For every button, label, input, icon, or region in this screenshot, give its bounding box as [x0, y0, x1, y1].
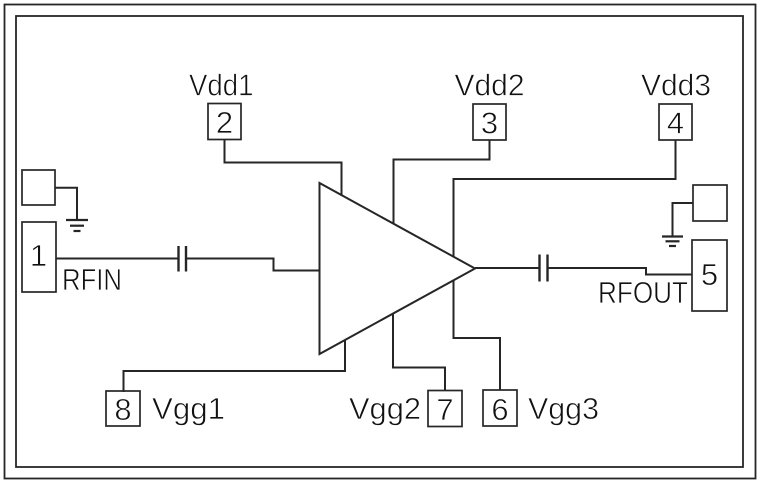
svg-text:RFIN: RFIN [62, 262, 122, 297]
svg-text:1: 1 [30, 238, 47, 273]
ground stub square (input) [22, 170, 55, 205]
wire square to ground (output side) [673, 203, 694, 236]
svg-text:5: 5 [701, 257, 718, 292]
svg-text:RFOUT: RFOUT [598, 275, 688, 310]
wire Vgg3 to amplifier [454, 281, 501, 391]
capacitor C1 (input DC block) [177, 246, 179, 272]
pin 7 box [428, 391, 462, 427]
ground (input side) [66, 220, 88, 231]
capacitor C2 (output DC block) [538, 255, 540, 282]
svg-text:3: 3 [481, 106, 498, 141]
pin 8 box [106, 391, 140, 426]
ground stub square (output) [693, 185, 727, 221]
svg-text:Vdd2: Vdd2 [455, 68, 525, 103]
wire Vdd2 to amplifier [394, 140, 490, 224]
svg-text:7: 7 [436, 392, 453, 427]
svg-text:6: 6 [491, 392, 508, 427]
op-amp U1 amplifier triangle [320, 183, 476, 354]
svg-text:Vdd1: Vdd1 [189, 68, 254, 103]
svg-text:4: 4 [667, 106, 684, 141]
svg-text:Vgg1: Vgg1 [152, 391, 225, 426]
wire Vgg1 to amplifier [124, 340, 346, 392]
pin 6 box [483, 390, 517, 426]
ground (output side) [662, 237, 683, 247]
wire amplifier output to C2 [475, 267, 539, 269]
wire pin1 to C1 [56, 258, 178, 260]
svg-text:Vgg2: Vgg2 [349, 391, 421, 426]
wire Vdd3 to amplifier [454, 140, 676, 258]
wire Vgg2 to amplifier [393, 314, 445, 391]
pin 2 box [208, 104, 241, 140]
wire C1 to amplifier input [186, 259, 320, 271]
pin 1 box [22, 222, 56, 292]
pin 3 box [473, 104, 506, 140]
wire square to ground [55, 188, 77, 220]
wire Vdd1 to amplifier [225, 140, 342, 197]
svg-text:Vgg3: Vgg3 [528, 391, 599, 426]
pin 4 box [659, 104, 692, 140]
svg-text:Vdd3: Vdd3 [641, 68, 711, 103]
svg-text:2: 2 [216, 105, 233, 140]
pin 5 box [692, 240, 727, 311]
wire C2 to pin 5 [548, 268, 692, 275]
svg-text:8: 8 [114, 392, 131, 427]
